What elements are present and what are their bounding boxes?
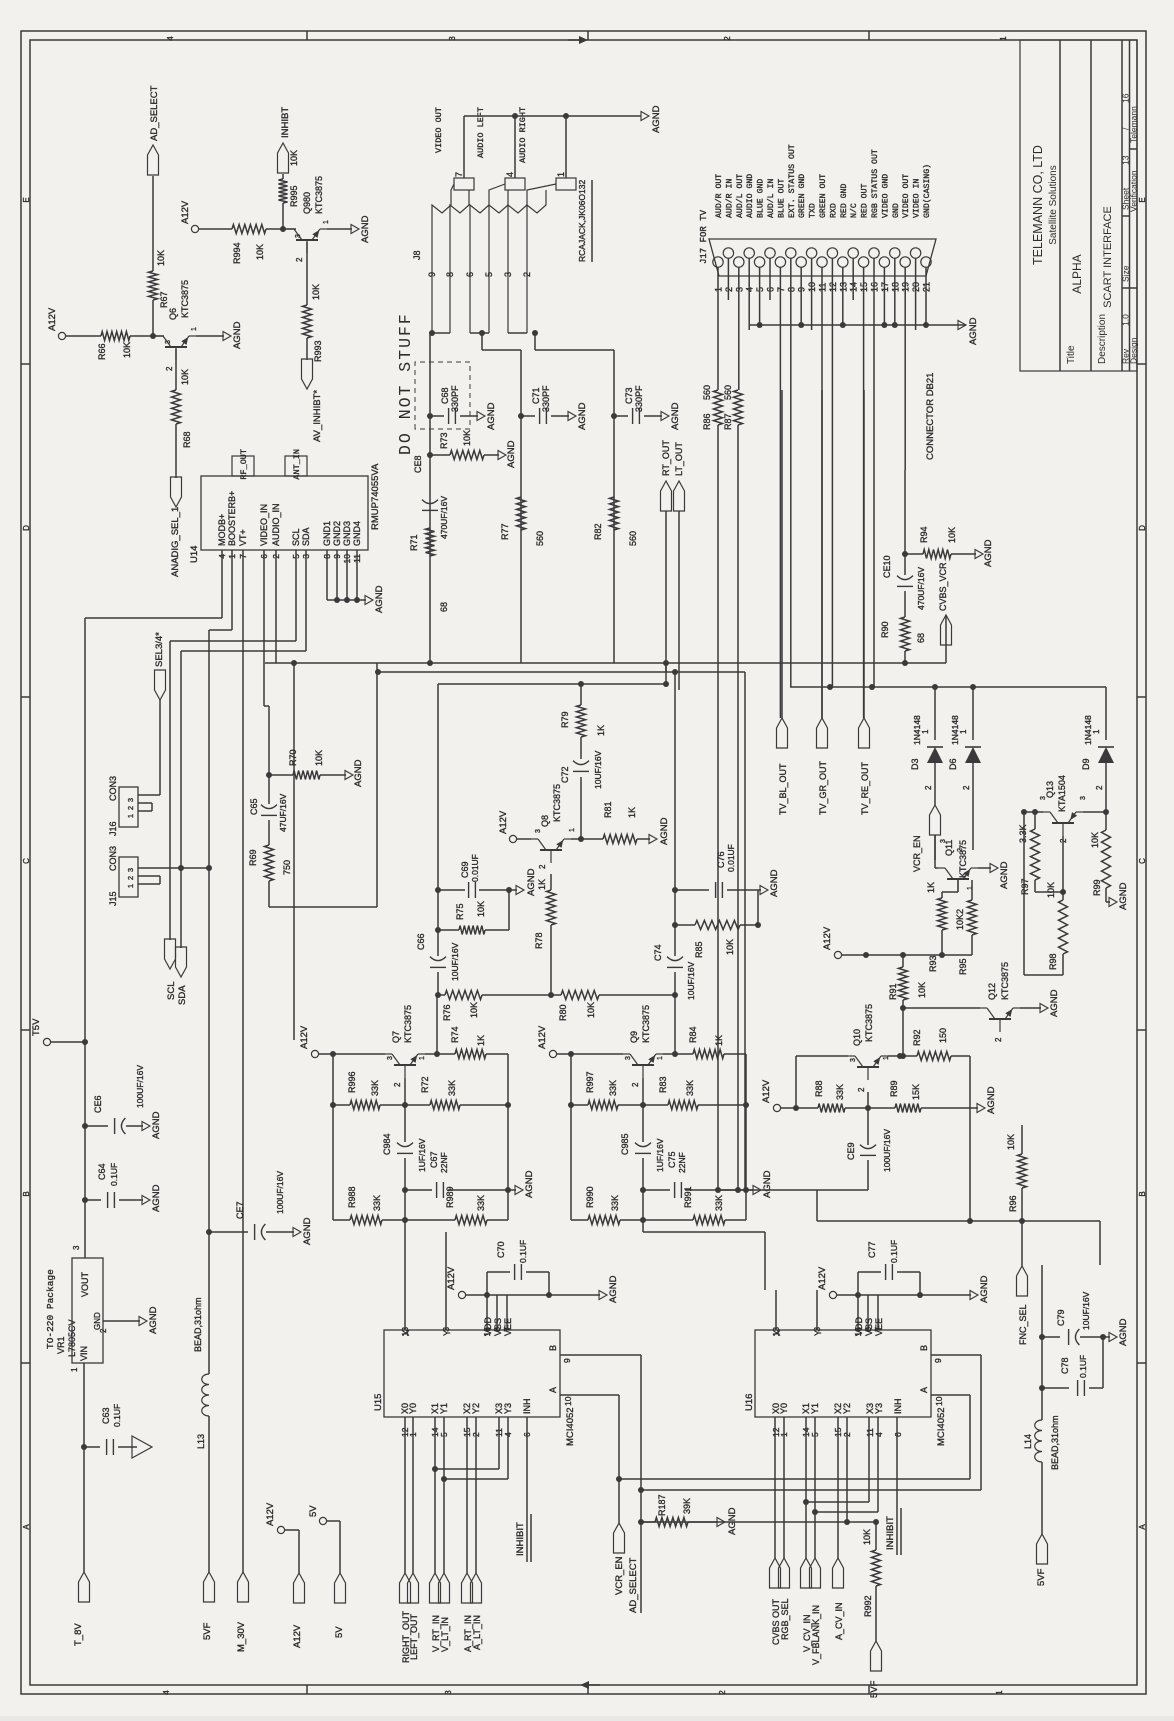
svg-text:C: C [22, 858, 31, 864]
svg-text:CON3: CON3 [108, 776, 118, 801]
svg-text:Q6: Q6 [168, 308, 178, 320]
svg-text:R77: R77 [500, 523, 510, 540]
svg-text:RGB STATUS OUT: RGB STATUS OUT [871, 149, 880, 218]
svg-text:E: E [1138, 197, 1147, 202]
svg-text:Q980: Q980 [302, 192, 312, 214]
svg-text:AGND: AGND [608, 1275, 619, 1303]
svg-text:33K: 33K [370, 1080, 380, 1096]
svg-text:Y2: Y2 [471, 1403, 481, 1414]
svg-text:100UF/16V: 100UF/16V [882, 1129, 892, 1172]
svg-text:10UF/16V: 10UF/16V [450, 942, 460, 981]
svg-text:T5V: T5V [31, 1018, 42, 1036]
svg-text:RF_OUT: RF_OUT [239, 449, 249, 480]
svg-text:2: 2 [393, 1082, 402, 1087]
svg-text:750: 750 [282, 860, 292, 875]
svg-text:R72: R72 [420, 1076, 430, 1093]
svg-text:3: 3 [126, 798, 135, 802]
svg-text:10K: 10K [462, 430, 472, 446]
svg-text:KTC3875: KTC3875 [864, 1004, 874, 1042]
svg-text:2: 2 [126, 876, 135, 880]
svg-text:10K: 10K [586, 1002, 596, 1018]
svg-text:560: 560 [723, 385, 733, 400]
svg-text:150: 150 [938, 1028, 948, 1043]
svg-text:Y0: Y0 [408, 1403, 418, 1414]
svg-text:SEL3/4*: SEL3/4* [154, 632, 165, 667]
svg-text:C71: C71 [531, 387, 541, 404]
svg-text:3: 3 [126, 868, 135, 872]
svg-text:C72: C72 [560, 766, 570, 783]
svg-text:KTC3875: KTC3875 [552, 784, 562, 822]
svg-text:C77: C77 [867, 1241, 877, 1258]
svg-text:A12V: A12V [761, 1079, 772, 1103]
svg-text:10: 10 [934, 1396, 944, 1406]
svg-text:CE10: CE10 [882, 555, 892, 578]
svg-text:330PF: 330PF [450, 385, 460, 412]
svg-text:D: D [1138, 525, 1147, 531]
svg-text:560: 560 [628, 531, 638, 546]
svg-text:VIDEO GND: VIDEO GND [881, 174, 890, 218]
svg-text:R84: R84 [688, 1026, 698, 1043]
svg-text:AGND: AGND [1049, 989, 1060, 1017]
svg-text:5VF: 5VF [202, 1622, 213, 1640]
svg-text:9: 9 [427, 272, 437, 277]
svg-text:5V: 5V [334, 1626, 345, 1638]
svg-text:3: 3 [1040, 796, 1047, 800]
svg-text:0.01UF: 0.01UF [470, 854, 480, 882]
svg-text:33K: 33K [372, 1195, 382, 1211]
svg-text:GND2: GND2 [332, 521, 342, 546]
svg-text:3: 3 [535, 829, 542, 833]
svg-text:R99: R99 [1092, 879, 1102, 896]
svg-text:Y: Y [813, 1330, 823, 1336]
svg-text:Q10: Q10 [852, 1029, 862, 1046]
svg-text:T_8V: T_8V [73, 1623, 84, 1646]
svg-text:KTA1504: KTA1504 [1057, 775, 1067, 812]
svg-text:RMUP74055VA: RMUP74055VA [370, 463, 381, 530]
svg-text:AGND: AGND [1118, 1318, 1129, 1346]
svg-text:KTC3875: KTC3875 [180, 280, 190, 318]
svg-text:D9: D9 [1081, 758, 1091, 770]
svg-text:1: 1 [967, 886, 974, 890]
svg-text:CE9: CE9 [846, 1142, 856, 1160]
svg-text:D6: D6 [948, 758, 958, 770]
svg-text:2: 2 [295, 257, 304, 262]
svg-text:AGND: AGND [769, 869, 780, 897]
svg-text:MCI4052: MCI4052 [565, 1407, 576, 1446]
svg-text:1: 1 [995, 1690, 1004, 1695]
svg-text:R994: R994 [232, 242, 242, 264]
svg-text:GREEN OUT: GREEN OUT [819, 174, 828, 218]
svg-text:R67: R67 [159, 291, 169, 308]
svg-text:R83: R83 [658, 1076, 668, 1093]
svg-text:RED OUT: RED OUT [861, 184, 870, 218]
svg-text:1K: 1K [476, 1035, 486, 1046]
svg-text:AGND: AGND [979, 1275, 990, 1303]
svg-text:R86: R86 [702, 413, 712, 430]
svg-text:ANADIG_SEL_1: ANADIG_SEL_1 [170, 507, 181, 577]
svg-text:VIDEO IN: VIDEO IN [913, 179, 922, 218]
svg-text:AD_SELECT: AD_SELECT [149, 85, 160, 141]
svg-text:AGND: AGND [524, 1170, 535, 1198]
svg-text:1K: 1K [627, 807, 637, 818]
svg-text:BLUE GND: BLUE GND [757, 179, 766, 218]
svg-text:AGND: AGND [151, 1184, 162, 1212]
svg-text:1: 1 [191, 327, 198, 331]
svg-text:68: 68 [916, 633, 926, 643]
svg-text:V_LT_IN: V_LT_IN [440, 1617, 450, 1652]
svg-text:3: 3 [850, 1058, 857, 1062]
svg-text:3: 3 [503, 272, 513, 277]
svg-text:10K: 10K [469, 1002, 479, 1018]
svg-text:Q13: Q13 [1045, 781, 1055, 798]
svg-text:GREEN GND: GREEN GND [798, 174, 807, 218]
svg-text:VDD: VDD [483, 1316, 493, 1336]
svg-text:KTC3875: KTC3875 [403, 1005, 413, 1043]
svg-text:C63: C63 [101, 1407, 111, 1424]
svg-text:CONNECTOR DB21: CONNECTOR DB21 [925, 373, 936, 460]
svg-text:330PF: 330PF [541, 385, 551, 412]
svg-text:R74: R74 [450, 1026, 460, 1043]
svg-text:Y1: Y1 [439, 1403, 449, 1414]
svg-text:C75: C75 [667, 1151, 677, 1168]
svg-text:6: 6 [893, 1432, 903, 1437]
svg-text:INHIBIT: INHIBIT [885, 1516, 896, 1550]
svg-text:C78: C78 [1060, 1357, 1070, 1374]
svg-text:1: 1 [569, 828, 576, 832]
svg-text:10K: 10K [1046, 882, 1056, 898]
svg-text:3: 3 [940, 839, 947, 843]
svg-text:RT_OUT: RT_OUT [661, 440, 671, 476]
svg-text:R68: R68 [182, 431, 192, 448]
svg-text:AUD/R IN: AUD/R IN [724, 179, 734, 218]
svg-text:9: 9 [562, 1358, 572, 1363]
svg-text:C69: C69 [460, 861, 470, 878]
svg-text:33K: 33K [685, 1080, 695, 1096]
svg-text:DO NOT STUFF: DO NOT STUFF [396, 312, 415, 455]
svg-text:10K: 10K [1090, 832, 1100, 848]
svg-text:10K: 10K [862, 1529, 872, 1545]
svg-text:10K: 10K [122, 342, 132, 358]
svg-text:C66: C66 [416, 933, 426, 950]
svg-text:KTC3875: KTC3875 [314, 176, 324, 214]
svg-text:Y0: Y0 [779, 1403, 789, 1414]
svg-text:Y2: Y2 [842, 1403, 852, 1414]
svg-text:AV_INHIBT*: AV_INHIBT* [312, 390, 323, 442]
svg-text:GND3: GND3 [342, 521, 352, 546]
svg-text:10K: 10K [314, 750, 324, 766]
svg-text:TV_GR_OUT: TV_GR_OUT [818, 760, 828, 815]
svg-text:E: E [22, 197, 31, 202]
svg-text:A12V: A12V [292, 1624, 303, 1648]
svg-text:1: 1 [921, 729, 930, 734]
svg-text:VCR_EN: VCR_EN [912, 835, 922, 872]
svg-text:Y1: Y1 [810, 1403, 820, 1414]
svg-text:KTC3875: KTC3875 [958, 840, 968, 878]
svg-text:B: B [548, 1345, 558, 1351]
svg-text:Size: Size [1121, 265, 1131, 282]
svg-text:C74: C74 [653, 944, 663, 961]
svg-text:33K: 33K [476, 1195, 486, 1211]
svg-text:R70: R70 [288, 749, 298, 766]
svg-text:33K: 33K [447, 1080, 457, 1096]
svg-text:4: 4 [874, 1432, 884, 1437]
svg-text:A12V: A12V [47, 307, 58, 331]
svg-text:CE6: CE6 [93, 1095, 103, 1113]
svg-text:B: B [1138, 1191, 1147, 1196]
svg-text:2: 2 [538, 864, 547, 869]
svg-text:R93: R93 [928, 955, 938, 972]
svg-text:1: 1 [70, 1367, 79, 1372]
svg-text:MCI4052: MCI4052 [936, 1407, 947, 1446]
svg-text:470UF/16V: 470UF/16V [439, 496, 449, 539]
svg-text:33K: 33K [610, 1195, 620, 1211]
svg-text:RGB_SEL: RGB_SEL [780, 1598, 790, 1640]
svg-text:VSS: VSS [864, 1318, 874, 1336]
svg-text:A: A [1138, 1524, 1147, 1530]
svg-text:0.1UF: 0.1UF [112, 1404, 122, 1427]
svg-text:1K: 1K [596, 725, 606, 736]
svg-text:AUDIO GND: AUDIO GND [746, 174, 755, 218]
svg-text:J8: J8 [412, 250, 422, 260]
svg-text:A12V: A12V [446, 1266, 457, 1290]
svg-text:R81: R81 [603, 801, 613, 818]
svg-text:1: 1 [419, 1056, 426, 1060]
svg-text:C: C [1138, 858, 1147, 864]
svg-text:10: 10 [563, 1396, 573, 1406]
svg-text:GND: GND [93, 1312, 102, 1330]
svg-text:J17 FOR TV: J17 FOR TV [699, 209, 709, 264]
svg-text:AGND: AGND [302, 1217, 313, 1245]
svg-text:R997: R997 [585, 1071, 595, 1093]
svg-text:D: D [22, 525, 31, 531]
svg-text:47UF/16V: 47UF/16V [278, 793, 288, 832]
svg-text:Title: Title [1066, 345, 1077, 364]
svg-text:1K: 1K [714, 1035, 724, 1046]
svg-text:AGND: AGND [374, 585, 385, 613]
svg-text:R79: R79 [560, 711, 570, 728]
svg-text:VEE: VEE [874, 1318, 884, 1336]
svg-text:1K: 1K [926, 882, 936, 893]
svg-text:2: 2 [126, 806, 135, 810]
svg-text:3: 3 [448, 36, 457, 41]
svg-text:5VF: 5VF [869, 1680, 880, 1698]
svg-text:A12V: A12V [817, 1266, 828, 1290]
svg-text:Q9: Q9 [629, 1031, 639, 1043]
svg-text:M_30V: M_30V [236, 1621, 247, 1652]
svg-text:R66: R66 [97, 343, 107, 360]
svg-text:A12V: A12V [537, 1025, 548, 1049]
svg-text:10K2: 10K2 [955, 909, 965, 930]
svg-text:2: 2 [994, 1037, 1003, 1042]
svg-text:10K: 10K [180, 369, 190, 385]
svg-text:MODB+: MODB+ [217, 514, 227, 546]
svg-text:KTC3875: KTC3875 [641, 1005, 651, 1043]
svg-text:AGND: AGND [1118, 882, 1129, 910]
svg-text:LEFT_OUT: LEFT_OUT [409, 1613, 419, 1660]
svg-text:AGND: AGND [486, 402, 497, 430]
svg-text:TV_BL_OUT: TV_BL_OUT [778, 763, 788, 815]
svg-text:VOUT: VOUT [80, 1271, 90, 1297]
svg-text:AGND: AGND [670, 402, 681, 430]
svg-text:C984: C984 [382, 1133, 392, 1155]
svg-text:L7805CV: L7805CV [67, 1319, 77, 1357]
svg-text:INH: INH [893, 1399, 903, 1415]
svg-text:5: 5 [484, 272, 494, 277]
svg-text:1: 1 [126, 884, 135, 888]
svg-text:D3: D3 [910, 758, 920, 770]
svg-text:10K: 10K [311, 284, 321, 300]
svg-text:AGND: AGND [151, 1111, 162, 1139]
svg-text:2: 2 [522, 272, 532, 277]
svg-text:R96: R96 [1008, 1195, 1018, 1212]
svg-text:R78: R78 [534, 932, 544, 949]
svg-text:2: 2 [957, 848, 964, 852]
svg-text:15K: 15K [911, 1084, 921, 1100]
svg-text:BEAD,31ohm: BEAD,31ohm [193, 1297, 203, 1352]
svg-text:3: 3 [72, 1245, 81, 1250]
svg-text:A: A [548, 1387, 558, 1393]
svg-text:R993: R993 [313, 340, 323, 362]
svg-text:AGND: AGND [986, 1086, 997, 1114]
svg-text:AGND: AGND [526, 868, 537, 896]
svg-text:AGND: AGND [360, 215, 371, 243]
svg-text:C67: C67 [429, 1151, 439, 1168]
svg-text:RCAJACK,JK06O132: RCAJACK,JK06O132 [577, 180, 587, 262]
svg-text:1: 1 [999, 36, 1008, 41]
svg-text:U16: U16 [744, 1394, 755, 1411]
svg-text:AUD/L OUT: AUD/L OUT [735, 174, 745, 218]
svg-text:ANT_IN: ANT_IN [292, 449, 302, 480]
svg-text:Satellite Solutions: Satellite Solutions [1048, 165, 1059, 245]
svg-text:R71: R71 [409, 534, 419, 551]
svg-text:J16: J16 [108, 821, 118, 836]
svg-text:AUD/L IN: AUD/L IN [766, 179, 776, 218]
svg-text:0.1UF: 0.1UF [109, 1163, 119, 1186]
svg-text:GND1: GND1 [322, 521, 332, 546]
svg-text:C79: C79 [1056, 1309, 1066, 1326]
svg-text:5V: 5V [308, 1505, 319, 1517]
svg-text:16: 16 [1121, 93, 1131, 103]
svg-text:13: 13 [1121, 155, 1131, 165]
svg-text:INHIBT: INHIBT [280, 107, 291, 138]
svg-text:R989: R989 [445, 1186, 455, 1208]
svg-text:R98: R98 [1048, 953, 1058, 970]
svg-text:10K: 10K [947, 527, 957, 543]
svg-text:C73: C73 [624, 387, 634, 404]
svg-text:R992: R992 [863, 1595, 873, 1617]
svg-text:4: 4 [505, 172, 515, 177]
svg-text:AGND: AGND [762, 1170, 773, 1198]
svg-text:VEE: VEE [503, 1318, 513, 1336]
svg-text:2: 2 [723, 36, 732, 41]
svg-text:R73: R73 [439, 432, 449, 449]
svg-text:VSS: VSS [493, 1318, 503, 1336]
svg-text:R990: R990 [585, 1186, 595, 1208]
svg-text:X: X [772, 1330, 782, 1336]
svg-text:Description: Description [1097, 314, 1108, 364]
svg-text:6: 6 [465, 272, 475, 277]
svg-text:Y3: Y3 [503, 1403, 513, 1414]
svg-text:C76: C76 [716, 851, 726, 868]
svg-text:VDD: VDD [854, 1316, 864, 1336]
svg-text:0.1UF: 0.1UF [889, 1240, 899, 1263]
svg-text:Q12: Q12 [987, 983, 997, 1000]
svg-text:10K: 10K [476, 901, 486, 917]
svg-text:R95: R95 [958, 958, 968, 975]
svg-text:BLUE OUT: BLUE OUT [777, 179, 786, 218]
svg-text:TELEMANN CO, LTD: TELEMANN CO, LTD [1031, 145, 1045, 265]
svg-text:2: 2 [924, 785, 933, 790]
svg-text:R187: R187 [657, 1494, 667, 1516]
svg-text:AD_SELECT: AD_SELECT [628, 1557, 639, 1613]
svg-text:Q8: Q8 [540, 815, 550, 827]
svg-text:VR1: VR1 [56, 1336, 66, 1354]
svg-text:INHIBIT: INHIBIT [515, 1522, 526, 1556]
svg-text:3: 3 [1080, 796, 1087, 800]
svg-text:CVBS_VCR: CVBS_VCR [938, 562, 948, 611]
svg-text:Y3: Y3 [874, 1403, 884, 1414]
svg-text:7: 7 [454, 172, 464, 177]
svg-text:1K: 1K [537, 879, 547, 890]
svg-text:A_CV_IN: A_CV_IN [834, 1602, 844, 1640]
svg-text:CE7: CE7 [235, 1201, 245, 1219]
svg-text:10UF/16V: 10UF/16V [1081, 1291, 1091, 1330]
svg-text:1: 1 [657, 1056, 664, 1060]
svg-text:2: 2 [857, 1087, 866, 1092]
svg-text:RED GND: RED GND [840, 184, 849, 218]
svg-text:10UF/16V: 10UF/16V [686, 961, 696, 1000]
svg-text:C65: C65 [249, 798, 259, 815]
svg-text:AGND: AGND [148, 1306, 159, 1334]
svg-text:R87: R87 [723, 413, 733, 430]
svg-text:J15: J15 [108, 891, 118, 906]
svg-text:VIDEO OUT: VIDEO OUT [902, 174, 911, 218]
svg-text:R69: R69 [248, 849, 258, 866]
svg-text:C64: C64 [97, 1163, 107, 1180]
svg-text:10K: 10K [289, 150, 299, 166]
svg-text:SCL: SCL [291, 528, 301, 546]
svg-text:AGND: AGND [999, 861, 1010, 889]
svg-text:R995: R995 [289, 185, 299, 207]
svg-text:A12V: A12V [822, 926, 833, 950]
svg-text:560: 560 [535, 531, 545, 546]
svg-text:CON3: CON3 [108, 846, 118, 871]
svg-text:1: 1 [1092, 729, 1101, 734]
svg-text:SCL: SCL [166, 982, 177, 1000]
svg-text:A: A [919, 1387, 929, 1393]
svg-text:3: 3 [444, 1690, 453, 1695]
svg-text:AUD/R OUT: AUD/R OUT [714, 174, 724, 218]
svg-text:R996: R996 [347, 1071, 357, 1093]
svg-text:AGND: AGND [232, 321, 243, 349]
svg-text:22NF: 22NF [677, 1152, 687, 1173]
svg-text:V_FBLANK_IN: V_FBLANK_IN [811, 1605, 821, 1665]
svg-text:2: 2 [718, 1690, 727, 1695]
svg-text:SCART INTERFACE: SCART INTERFACE [1102, 206, 1114, 308]
svg-text:10K: 10K [725, 939, 735, 955]
svg-text:4: 4 [162, 1690, 171, 1695]
svg-text:R89: R89 [889, 1080, 899, 1097]
svg-text:10K: 10K [156, 250, 166, 266]
svg-text:B: B [919, 1345, 929, 1351]
svg-text:10K: 10K [1006, 1134, 1016, 1150]
svg-text:AGND: AGND [577, 402, 588, 430]
svg-text:EXT. STATUS OUT: EXT. STATUS OUT [788, 144, 797, 218]
svg-text:GND(CASING): GND(CASING) [922, 164, 932, 218]
svg-text:1: 1 [556, 172, 566, 177]
svg-text:1: 1 [959, 729, 968, 734]
svg-text:A12V: A12V [180, 200, 191, 224]
